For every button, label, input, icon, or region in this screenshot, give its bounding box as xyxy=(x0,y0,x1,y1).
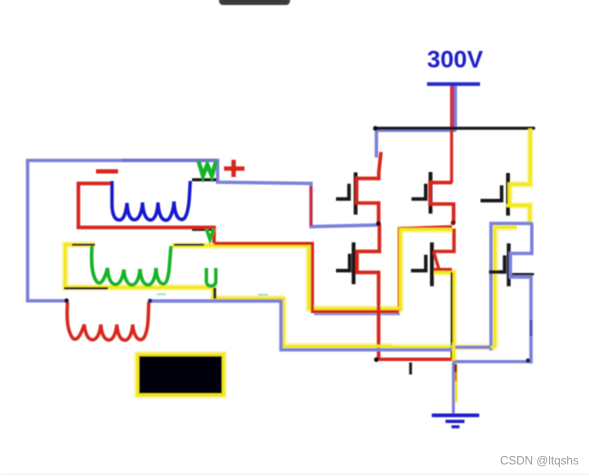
wire: purple ground rail right xyxy=(453,360,532,363)
svg-text:300V: 300V xyxy=(427,47,483,74)
faint bottom edge line xyxy=(0,474,589,476)
transistor Q6 gate xyxy=(489,255,505,272)
wire: red ground rail left xyxy=(379,358,455,361)
transistor Q3 top-right drain-source zigzag (yellow) xyxy=(509,129,530,222)
wire: purple phase-C vertical xyxy=(491,223,533,350)
wire: yellow u-phase long rail xyxy=(283,299,495,348)
transistor Q6 channel bar xyxy=(507,243,511,286)
wire: dark overlay on Q6 source xyxy=(530,320,532,336)
wire: black marks on yellow frame xyxy=(72,244,95,246)
label: plus sign xyxy=(224,166,245,170)
transistor Q5 bottom-left drain-source zigzag (red) xyxy=(357,224,379,359)
wire: red 300V feed xyxy=(450,85,453,183)
wire: yellow U link node v to phase-V leg xyxy=(309,229,453,308)
wire: black tick below ground rail xyxy=(409,363,412,375)
wire: purple rail from red winding to phase-C xyxy=(150,301,492,350)
speck: pale green dash 1 xyxy=(157,293,166,295)
wire: yellow C-frame around green winding Lv xyxy=(65,245,212,288)
node: ground right junction xyxy=(526,358,530,362)
wire: purple 300V drop xyxy=(454,85,457,131)
wire: darker purple overlay top-left rail xyxy=(122,159,217,162)
wire: yellow overlay at ground junction crossing xyxy=(452,343,455,361)
wire: purple top bus overlay xyxy=(376,130,456,157)
svg-text:CSDN @ltqshs: CSDN @ltqshs xyxy=(500,455,579,468)
wire: yellow phase-C vertical xyxy=(495,227,517,347)
wire: black under red frame bottom right xyxy=(192,229,215,231)
transistor Q6 bottom-right drain-source zigzag (purple) xyxy=(510,223,531,363)
wire: black under Q6 source horizontal xyxy=(511,273,534,275)
node: red winding right xyxy=(148,299,152,303)
transistor Q1 top-left drain-source zigzag (red) xyxy=(357,152,381,224)
yellow highlighter halos xyxy=(65,129,530,396)
label: green u xyxy=(206,268,215,286)
wire: crimson blend 300V drop xyxy=(452,85,455,131)
wire: yellow v-phase lead from green winding to node v xyxy=(172,244,309,247)
wire: black top bus xyxy=(375,127,535,130)
node: ground left junction xyxy=(374,357,379,362)
wire: yellow ground lead segment xyxy=(455,364,458,402)
inductor Lu red winding xyxy=(67,302,149,340)
transistor Q2 top-middle drain-source zigzag (red) xyxy=(430,183,454,223)
wire: black stub from blue winding to w node xyxy=(192,178,217,181)
node: phase A junction xyxy=(376,221,381,226)
browser scrollbar remnant top xyxy=(219,0,290,5)
wire: purple loop left (w node to red winding) xyxy=(28,160,378,300)
transistor Q3 gate xyxy=(481,185,502,200)
block: yellow-bordered black rectangle xyxy=(138,355,224,396)
node: phase B junction xyxy=(451,220,456,225)
speck: pale green dash 2 xyxy=(258,294,268,296)
transistor Q1 channel bar xyxy=(354,172,358,214)
label: minus sign xyxy=(96,169,118,173)
inductor Lv green winding xyxy=(92,246,171,285)
wire: red C-frame around blue winding Lw xyxy=(78,183,214,243)
wire: dark red ground lead bit xyxy=(454,364,457,372)
inductor Lw blue winding xyxy=(112,181,190,220)
transistor Q5 gate xyxy=(336,254,350,271)
transistor Q4 bottom-middle source (yellow) xyxy=(434,272,454,360)
wire: purple ground lead xyxy=(452,362,455,417)
wire: red inside purple drop at node xyxy=(310,186,313,226)
transistor Q3 channel bar xyxy=(506,173,510,216)
node: red winding left xyxy=(64,298,68,302)
wire: purple trace along Q1 bar xyxy=(354,184,356,209)
transistor Q2 channel bar xyxy=(429,172,433,214)
transistor Q2 gate xyxy=(412,184,426,199)
wire: yellow step at u terminal xyxy=(213,287,285,298)
node: bus corner xyxy=(373,126,378,131)
transistor Q4 bottom-middle drain zigzag (red) xyxy=(434,229,454,252)
ground symbol xyxy=(432,413,479,417)
transistor Q5 channel bar xyxy=(352,242,356,284)
wire: red v link over yellow xyxy=(214,243,399,311)
battery: 300V supply bar xyxy=(427,82,480,86)
transistor Q1 gate xyxy=(336,184,349,199)
wire: black stub u terminal xyxy=(213,288,216,299)
wire: purple mid stub under U bottom xyxy=(314,313,400,315)
transistor Q4 gate xyxy=(411,255,426,271)
transistor Q4 channel bar xyxy=(430,242,434,286)
label: green v xyxy=(206,229,213,240)
label: green w xyxy=(199,161,217,176)
wire: red U right leg (under yellow) xyxy=(399,227,452,311)
wire: black edge of Q4 source xyxy=(451,272,453,360)
